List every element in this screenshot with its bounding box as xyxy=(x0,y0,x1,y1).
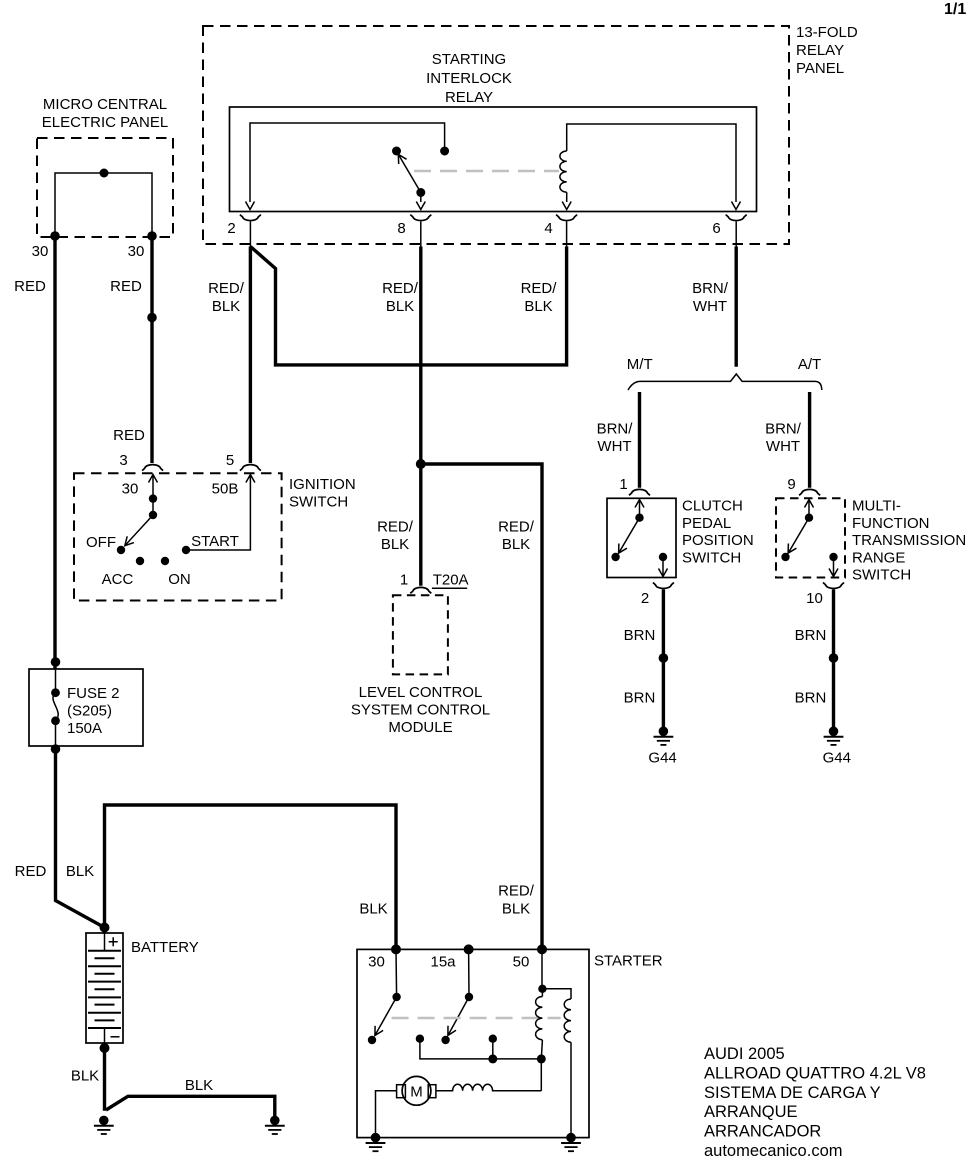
node starter terminal 50 xyxy=(537,944,547,954)
clutch node pivot xyxy=(635,514,643,522)
svg-text:automecanico.com: automecanico.com xyxy=(704,1142,843,1160)
node on RED wire xyxy=(147,313,157,323)
svg-text:MULTI-: MULTI- xyxy=(852,498,901,515)
svg-text:BLK: BLK xyxy=(524,298,552,315)
svg-text:9: 9 xyxy=(787,476,795,493)
ignition contact ON xyxy=(161,557,169,565)
node battery positive junction xyxy=(100,923,110,933)
svg-text:RED: RED xyxy=(110,278,142,295)
clutch switch arm xyxy=(619,518,640,554)
svg-text:10: 10 xyxy=(806,590,823,607)
svg-text:BLK: BLK xyxy=(502,901,530,918)
svg-text:RED/: RED/ xyxy=(498,518,535,535)
svg-text:RED/: RED/ xyxy=(498,883,535,900)
svg-text:OFF: OFF xyxy=(86,534,116,551)
svg-text:BRN/: BRN/ xyxy=(765,421,802,438)
relay arrow terminal 4 xyxy=(562,202,571,210)
svg-text:WHT: WHT xyxy=(597,438,631,455)
clutch switch connector pin 1 xyxy=(629,489,650,495)
wire RED/BLK terminal 2 to ignition 50B xyxy=(249,247,252,464)
svg-text:SWITCH: SWITCH xyxy=(852,567,911,584)
ground battery left xyxy=(94,1116,114,1134)
starter solenoid lead from 50 xyxy=(541,949,543,988)
wire RED/BLK terminal 8 down to junction xyxy=(419,247,422,586)
ignition wire START to 50B arrow xyxy=(186,475,255,551)
svg-text:SISTEMA DE CARGA Y: SISTEMA DE CARGA Y xyxy=(704,1084,881,1102)
svg-text:1: 1 xyxy=(619,476,627,493)
wire stub terminal 2 xyxy=(249,221,251,246)
svg-text:INTERLOCK: INTERLOCK xyxy=(426,70,512,87)
battery internal top stub xyxy=(104,933,106,951)
svg-text:30: 30 xyxy=(128,243,145,260)
fuse element S205 xyxy=(53,669,58,746)
svg-text:WHT: WHT xyxy=(693,298,727,315)
svg-text:ON: ON xyxy=(168,571,191,588)
relay arrow terminal 6 xyxy=(732,202,741,210)
battery minus sign xyxy=(111,1036,120,1038)
ignition switch arm to OFF xyxy=(125,515,153,546)
svg-text:POSITION: POSITION xyxy=(682,532,754,549)
ignition switch connector 50B xyxy=(240,465,261,471)
svg-text:50B: 50B xyxy=(212,481,239,498)
starter motor M xyxy=(402,1076,431,1105)
battery G1 box xyxy=(86,933,123,1043)
svg-text:WHT: WHT xyxy=(766,438,800,455)
13-fold relay panel dashed box xyxy=(203,26,789,244)
svg-text:30: 30 xyxy=(368,954,385,971)
multifunction contact right xyxy=(829,553,837,561)
relay mechanical link dashed xyxy=(414,170,559,173)
svg-text:PANEL: PANEL xyxy=(796,60,844,77)
svg-text:8: 8 xyxy=(397,220,405,237)
svg-text:(S205): (S205) xyxy=(67,702,112,719)
svg-text:SYSTEM CONTROL: SYSTEM CONTROL xyxy=(351,702,490,719)
svg-text:BLK: BLK xyxy=(386,298,414,315)
wire BRN/WHT terminal 6 down xyxy=(735,247,738,367)
svg-text:BLK: BLK xyxy=(66,863,94,880)
fuse node bottom xyxy=(51,716,60,725)
svg-text:RELAY: RELAY xyxy=(445,89,493,106)
starter switch 30 arm xyxy=(375,997,397,1036)
wire RED/BLK terminal 2 branch to terminal 4 riser xyxy=(250,247,566,365)
node bridge junction 2 xyxy=(537,1054,546,1063)
svg-text:RELAY: RELAY xyxy=(796,42,844,59)
ignition contact OFF xyxy=(117,546,125,554)
multifunction arrow up pin 9 xyxy=(805,500,814,518)
svg-text:RED/: RED/ xyxy=(382,280,419,297)
wire BRN/WHT A/T branch xyxy=(808,392,811,488)
wire RED/BLK junction to starter 50 xyxy=(421,464,542,949)
ignition switch S2 dashed box xyxy=(74,473,282,600)
svg-text:RED/: RED/ xyxy=(377,518,414,535)
battery internal bottom stub xyxy=(104,1028,106,1043)
wire BLK battery positive to starter 30 xyxy=(105,805,397,949)
node terminal 30 left xyxy=(50,231,60,241)
svg-text:FUSE 2: FUSE 2 xyxy=(67,685,120,702)
svg-text:BRN/: BRN/ xyxy=(692,280,729,297)
starter field winding L2 xyxy=(436,1084,541,1091)
relay terminal 2 connector xyxy=(240,215,261,221)
svg-text:START: START xyxy=(191,533,239,550)
clutch connector pin 2 xyxy=(653,583,674,589)
svg-text:BLK: BLK xyxy=(71,1068,99,1085)
wire BRN multifunction to ground xyxy=(832,589,835,727)
svg-text:BLK: BLK xyxy=(185,1077,213,1094)
svg-text:1/1: 1/1 xyxy=(944,1,966,18)
wire stub terminal 8 xyxy=(420,221,422,246)
svg-text:BRN: BRN xyxy=(795,690,827,707)
wire stub terminal 6 xyxy=(735,221,737,246)
relay switch arm xyxy=(398,154,421,192)
node junction A xyxy=(416,459,426,469)
relay coil wire top xyxy=(567,124,736,202)
ground G44 left xyxy=(654,727,674,745)
multifunction switch connector pin 9 xyxy=(799,489,820,495)
multifunction switch arm xyxy=(788,518,809,554)
starter mechanical link dashed xyxy=(392,1017,561,1020)
svg-text:MICRO CENTRAL: MICRO CENTRAL xyxy=(43,96,167,113)
svg-text:RED: RED xyxy=(15,863,47,880)
starter switch 15a pivot xyxy=(465,993,473,1001)
svg-text:BRN: BRN xyxy=(795,627,827,644)
node on BRN wire right xyxy=(829,653,839,663)
svg-text:MODULE: MODULE xyxy=(388,719,452,736)
micro central electric panel box xyxy=(37,138,173,237)
wire BRN clutch to ground xyxy=(662,589,665,727)
svg-text:BLK: BLK xyxy=(359,901,387,918)
relay NO contact node xyxy=(440,147,449,156)
relay wire armature to terminal 8 xyxy=(420,193,422,203)
svg-text:G44: G44 xyxy=(648,750,676,767)
wire bridge to field winding xyxy=(540,1059,542,1091)
svg-text:ARRANCADOR: ARRANCADOR xyxy=(704,1123,821,1141)
motor wire to ground leg xyxy=(376,1091,397,1138)
relay NC contact node xyxy=(392,147,401,156)
relay U1 outer box xyxy=(230,107,757,212)
multifunction contact left xyxy=(781,553,789,561)
battery plates xyxy=(88,951,121,1028)
wire stub terminal 4 xyxy=(566,221,568,246)
motor brush left xyxy=(397,1085,406,1098)
multifunction node pivot xyxy=(805,514,813,522)
svg-text:RANGE: RANGE xyxy=(852,549,905,566)
fuse node top xyxy=(51,688,60,697)
ignition contact START xyxy=(182,546,190,554)
svg-text:15a: 15a xyxy=(430,954,456,971)
svg-text:2: 2 xyxy=(641,590,649,607)
svg-text:BRN/: BRN/ xyxy=(597,421,634,438)
svg-text:ALLROAD QUATTRO 4.2L V8: ALLROAD QUATTRO 4.2L V8 xyxy=(704,1064,926,1082)
svg-text:30: 30 xyxy=(32,243,49,260)
wire RED left vertical to fuse xyxy=(53,236,56,669)
motor brush right xyxy=(428,1085,436,1098)
ground battery right xyxy=(265,1116,285,1134)
starter switch 15a arm xyxy=(448,997,469,1036)
starter contact bridge wire xyxy=(420,1039,541,1059)
clutch contact left xyxy=(611,553,619,561)
svg-text:AUDI 2005: AUDI 2005 xyxy=(704,1045,785,1063)
fuse F2 box xyxy=(29,669,143,746)
svg-text:150A: 150A xyxy=(67,720,102,737)
node above fuse xyxy=(51,657,61,667)
level control module terminal 1 connector xyxy=(410,587,431,593)
svg-text:SWITCH: SWITCH xyxy=(682,549,741,566)
svg-text:T20A: T20A xyxy=(433,572,469,589)
relay coil wire bottom xyxy=(566,192,568,202)
relay terminal 6 connector xyxy=(726,215,747,221)
ignition switch connector 30 xyxy=(142,465,163,471)
starter hold-in coil branch xyxy=(542,989,571,1138)
relay coil L1 xyxy=(560,151,567,192)
level control system control module box xyxy=(393,595,448,674)
clutch contact right xyxy=(659,553,667,561)
svg-text:6: 6 xyxy=(712,220,720,237)
svg-text:M: M xyxy=(410,1084,423,1101)
starter M1 box xyxy=(357,949,589,1137)
svg-text:PEDAL: PEDAL xyxy=(682,515,731,532)
relay armature node xyxy=(416,188,425,197)
ground G44 right xyxy=(824,727,844,745)
node bridge junction 1 xyxy=(488,1054,497,1063)
wire inside micro panel xyxy=(55,173,152,236)
battery plus sign xyxy=(109,937,118,946)
ignition node on arm pivot upper xyxy=(149,494,157,502)
wire RED right vertical to ignition switch xyxy=(150,236,153,463)
node starter terminal 30 xyxy=(391,944,401,954)
clutch pedal position switch box xyxy=(607,498,676,577)
relay internal wire terminal 2 to NO contact xyxy=(250,123,445,202)
svg-text:BLK: BLK xyxy=(212,298,240,315)
relay arrow terminal 8 xyxy=(416,202,425,210)
starter floating contact right xyxy=(489,1035,497,1043)
svg-text:STARTING: STARTING xyxy=(432,51,506,68)
ground starter left xyxy=(366,1133,386,1151)
node solenoid top xyxy=(538,985,546,993)
svg-text:RED: RED xyxy=(113,427,145,444)
clutch arrow up pin 1 xyxy=(635,500,644,518)
ignition arrow up terminal 30 xyxy=(149,475,158,516)
node terminal 30 right xyxy=(147,231,157,241)
svg-text:BRN: BRN xyxy=(624,627,656,644)
svg-text:M/T: M/T xyxy=(627,356,653,373)
ignition node arm pivot xyxy=(149,511,157,519)
svg-text:13-FOLD: 13-FOLD xyxy=(796,24,858,41)
clutch arrow down pin 2 xyxy=(659,557,668,577)
wire BLK jumper to right ground xyxy=(106,1096,275,1116)
multifunction connector pin 10 xyxy=(823,583,844,589)
svg-text:RED/: RED/ xyxy=(521,280,558,297)
wire battery positive stub xyxy=(103,928,106,934)
starter switch 30 pivot xyxy=(392,993,400,1001)
multifunction arrow down pin 10 xyxy=(829,557,838,577)
starter switch 15a contact xyxy=(441,1036,449,1044)
starter switch 30 contact xyxy=(368,1036,376,1044)
svg-text:STARTER: STARTER xyxy=(594,952,663,969)
wire BRN/WHT M/T branch xyxy=(638,392,641,488)
relay arrow terminal 2 xyxy=(246,202,255,210)
svg-text:5: 5 xyxy=(226,452,234,469)
svg-text:BLK: BLK xyxy=(502,536,530,553)
starter switch 15a lead xyxy=(468,949,470,997)
svg-text:FUNCTION: FUNCTION xyxy=(852,515,930,532)
relay terminal 4 connector xyxy=(556,215,577,221)
relay terminal 8 connector xyxy=(410,215,431,221)
node on BRN wire xyxy=(659,653,669,663)
svg-text:IGNITION: IGNITION xyxy=(289,476,356,493)
node junction on panel bus xyxy=(100,169,109,178)
svg-text:BATTERY: BATTERY xyxy=(131,939,199,956)
underline T20A xyxy=(432,587,467,589)
svg-text:RED: RED xyxy=(14,278,46,295)
wire RED from fuse to battery junction xyxy=(56,746,105,928)
svg-text:LEVEL CONTROL: LEVEL CONTROL xyxy=(359,684,483,701)
starter switch 30 lead xyxy=(395,949,398,997)
node starter terminal 15a xyxy=(464,944,474,954)
node below fuse xyxy=(51,744,61,754)
svg-text:A/T: A/T xyxy=(798,356,821,373)
svg-text:SWITCH: SWITCH xyxy=(289,493,348,510)
svg-text:G44: G44 xyxy=(823,750,851,767)
svg-text:ARRANQUE: ARRANQUE xyxy=(704,1103,798,1121)
svg-text:50: 50 xyxy=(513,954,530,971)
svg-text:CLUTCH: CLUTCH xyxy=(682,498,743,515)
ground starter right xyxy=(561,1133,581,1151)
starter solenoid pull-in coil xyxy=(536,989,543,1059)
svg-text:ACC: ACC xyxy=(102,571,134,588)
svg-text:TRANSMISSION: TRANSMISSION xyxy=(852,532,966,549)
multifunction transmission range switch box xyxy=(776,498,845,577)
svg-text:RED/: RED/ xyxy=(208,280,245,297)
svg-text:1: 1 xyxy=(400,572,408,589)
svg-text:2: 2 xyxy=(227,220,235,237)
ignition contact ACC xyxy=(136,557,144,565)
svg-text:BRN: BRN xyxy=(624,690,656,707)
wire BLK battery negative to ground xyxy=(103,1043,106,1111)
svg-text:BLK: BLK xyxy=(381,536,409,553)
starter floating contact left xyxy=(416,1035,424,1043)
svg-text:3: 3 xyxy=(119,452,127,469)
node battery negative xyxy=(100,1043,110,1053)
brace M/T A/T split xyxy=(628,374,822,390)
svg-text:4: 4 xyxy=(544,220,552,237)
svg-text:ELECTRIC PANEL: ELECTRIC PANEL xyxy=(42,114,168,131)
svg-text:30: 30 xyxy=(122,481,139,498)
